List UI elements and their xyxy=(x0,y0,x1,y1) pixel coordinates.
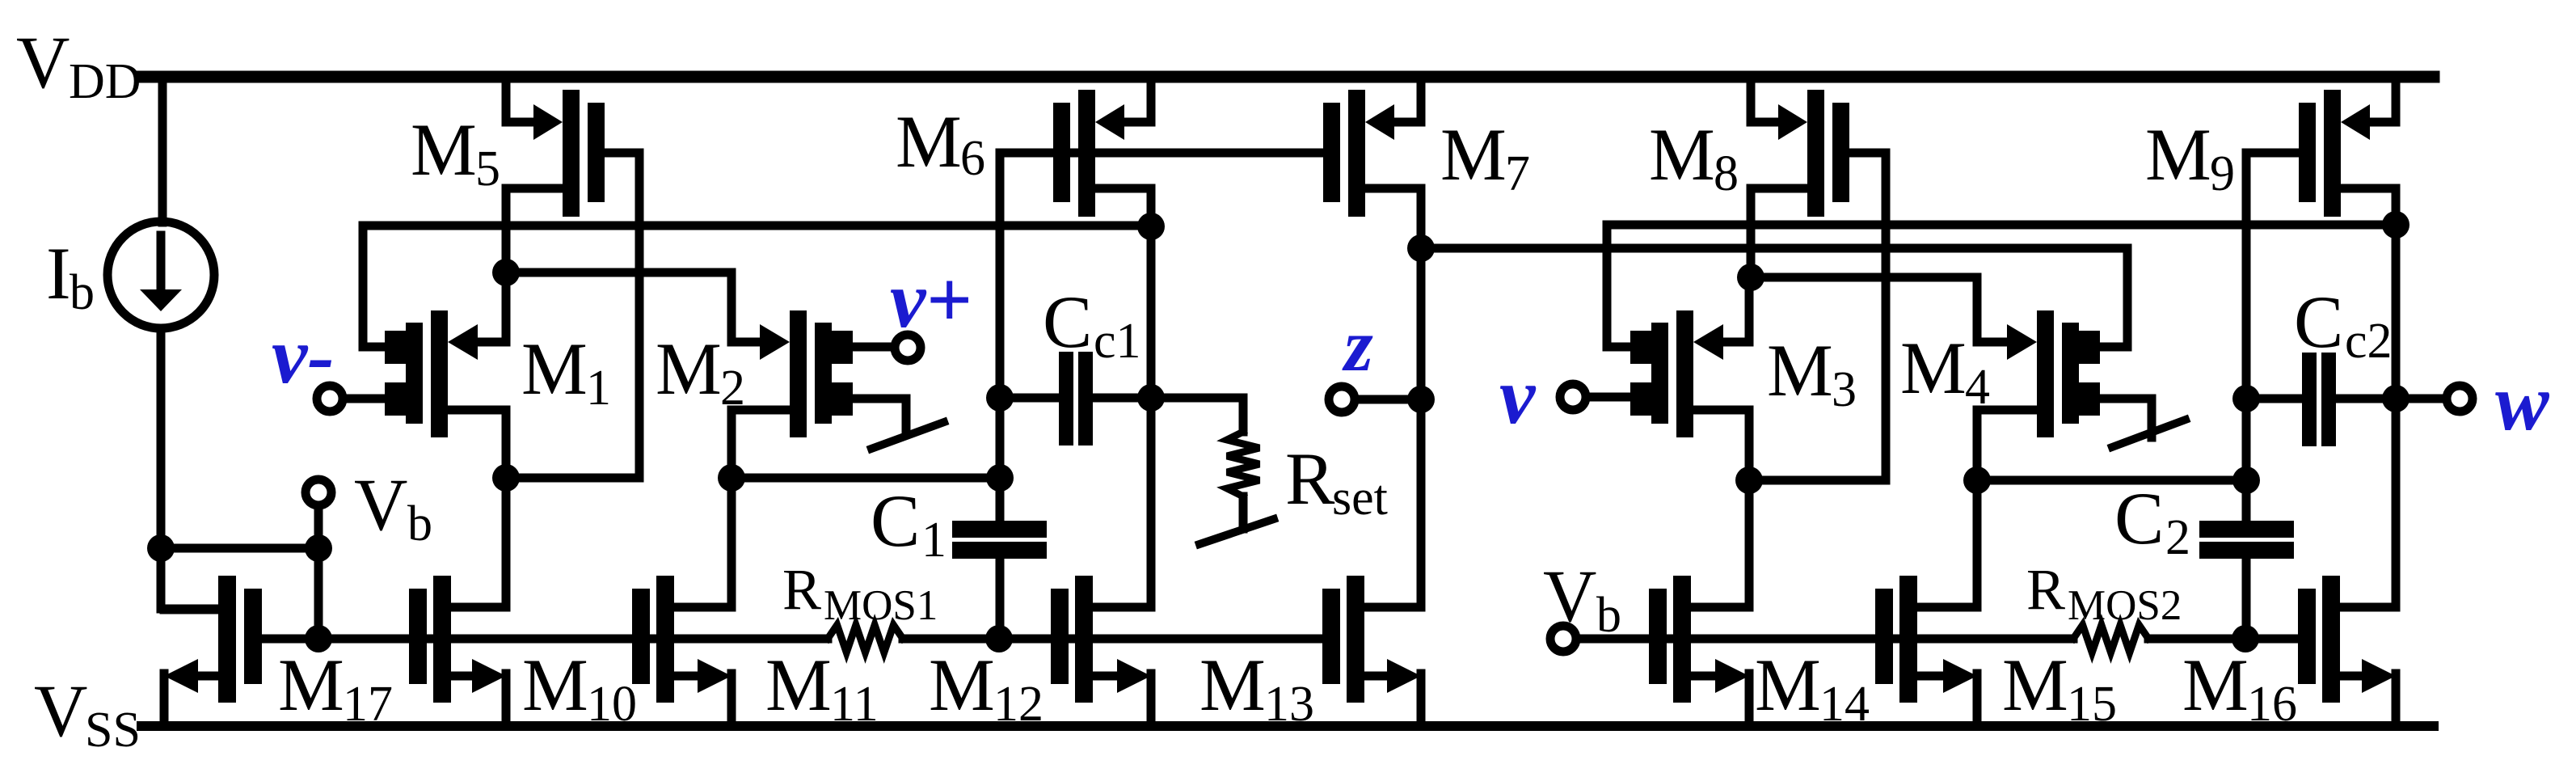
wire v- to M1 xyxy=(347,395,385,403)
label M12 xyxy=(929,644,1043,732)
svg-text:1: 1 xyxy=(586,361,611,416)
terminal v- xyxy=(317,386,343,412)
node M6 drain xyxy=(1137,213,1165,240)
wire z terminal xyxy=(1359,395,1421,404)
wire M2 drain down xyxy=(727,410,736,478)
node Vb on gate bus xyxy=(305,625,332,652)
node first stage out at C1 xyxy=(986,464,1014,492)
node Cc1 right xyxy=(1137,384,1165,412)
svg-text:M: M xyxy=(411,108,477,191)
wire M8 drain down to tail 2 xyxy=(1747,188,1756,277)
wire M2 drain to C1 node xyxy=(731,474,1000,483)
gate bus right segment 2 xyxy=(2148,635,2300,644)
node C1 on gate bus xyxy=(985,625,1013,652)
wire Ib down to M17 drain xyxy=(161,544,218,609)
wire Ib to Vb node xyxy=(161,544,318,553)
wire M3 source up xyxy=(1745,277,1754,342)
svg-text:C: C xyxy=(1043,281,1092,363)
wire M9 drain down (w) xyxy=(2392,188,2401,607)
svg-text:3: 3 xyxy=(1832,362,1857,417)
label RMOS2 xyxy=(2026,557,2182,629)
transistor M4 (input PMOS) xyxy=(1977,310,2100,437)
label C2 xyxy=(2114,477,2190,565)
svg-text:C: C xyxy=(2294,281,2343,363)
svg-text:2: 2 xyxy=(2165,510,2190,565)
svg-text:9: 9 xyxy=(2210,146,2235,201)
wire M1 source up xyxy=(502,272,511,342)
transistor M11 (NMOS) xyxy=(632,576,731,726)
label M9 xyxy=(2145,113,2235,201)
label M5 xyxy=(411,108,500,196)
bulk slash M2 xyxy=(871,422,944,449)
svg-text:13: 13 xyxy=(1264,677,1314,732)
label w xyxy=(2495,357,2550,447)
node C2 on gate bus xyxy=(2232,625,2259,652)
label M2 xyxy=(656,327,745,416)
svg-text:5: 5 xyxy=(475,141,500,196)
terminal v xyxy=(1560,384,1586,410)
resistor Rset xyxy=(1151,398,1259,529)
svg-text:8: 8 xyxy=(1714,146,1739,201)
svg-text:M: M xyxy=(1755,644,1821,726)
transistor M13 (NMOS) xyxy=(1322,576,1421,726)
label VDD xyxy=(16,21,141,109)
svg-text:I: I xyxy=(46,232,71,315)
svg-text:R: R xyxy=(782,557,821,622)
terminal v+ xyxy=(895,335,921,361)
wire M3 drain down xyxy=(1745,410,1754,480)
svg-text:14: 14 xyxy=(1819,677,1870,732)
transistor M7 (PMOS) xyxy=(1323,77,1421,217)
label C1 xyxy=(871,479,947,568)
wire M6 drain down xyxy=(1147,188,1156,607)
label Vb left xyxy=(354,463,432,551)
svg-text:16: 16 xyxy=(2247,677,2297,732)
label RMOS1 xyxy=(782,557,938,629)
node M1 drain xyxy=(492,464,520,492)
node w xyxy=(2382,385,2409,412)
wire M9 drain to M3 gate (line y278) xyxy=(1607,225,2396,347)
label M13 xyxy=(1199,644,1314,732)
node Vb-Ib wire junction xyxy=(305,534,332,562)
svg-text:M: M xyxy=(2002,644,2068,726)
label Rset xyxy=(1285,437,1388,526)
svg-text:M: M xyxy=(521,327,588,410)
VDD rail xyxy=(141,71,2434,83)
capacitor C2 xyxy=(2199,480,2294,639)
svg-text:6: 6 xyxy=(960,131,985,186)
transistor M8 (PMOS) xyxy=(1751,77,1886,217)
label VSS xyxy=(34,669,141,758)
svg-text:DD: DD xyxy=(69,54,141,109)
svg-text:v: v xyxy=(1499,351,1537,441)
svg-text:V: V xyxy=(354,463,407,546)
svg-text:M: M xyxy=(1767,329,1833,412)
transistor M15 (NMOS) xyxy=(1875,576,1977,726)
label M1 xyxy=(521,327,611,416)
node tail 2 xyxy=(1737,264,1764,291)
VSS rail xyxy=(141,721,2434,731)
gate bus left segment 2 xyxy=(903,635,1323,644)
svg-text:V: V xyxy=(34,669,87,752)
svg-text:MOS2: MOS2 xyxy=(2068,582,2182,629)
svg-text:b: b xyxy=(407,496,432,551)
wire M2 upper stub to v+ xyxy=(852,343,891,352)
svg-text:SS: SS xyxy=(85,703,141,758)
wire M9 gate down xyxy=(2246,153,2297,480)
wire M4 drain down xyxy=(1973,410,1982,480)
wire M2 drain down to M11 xyxy=(727,478,736,607)
svg-text:1: 1 xyxy=(921,513,947,568)
slash Rset xyxy=(1199,519,1274,544)
label z xyxy=(1342,304,1373,386)
label M16 xyxy=(2182,644,2297,732)
wire Vb down to gate bus xyxy=(314,505,323,639)
label M4 xyxy=(1900,327,1990,415)
gate bus right segment 1 xyxy=(1576,635,2073,644)
node M3 drain xyxy=(1735,467,1763,494)
svg-text:c2: c2 xyxy=(2345,314,2393,369)
svg-text:17: 17 xyxy=(343,677,393,732)
svg-text:M: M xyxy=(522,644,588,726)
svg-text:c1: c1 xyxy=(1094,314,1141,369)
wire M1 drain down to M10 xyxy=(502,478,511,607)
wire tail node 1 xyxy=(506,272,731,342)
label M17 xyxy=(278,644,393,732)
svg-text:M: M xyxy=(1649,113,1715,196)
wire tail node 2 xyxy=(1751,277,1977,342)
transistor M2 (input PMOS) xyxy=(731,310,853,437)
label M7 xyxy=(1440,113,1530,201)
svg-text:10: 10 xyxy=(587,677,637,732)
transistor M1 (input PMOS) xyxy=(385,310,506,437)
transistor M10 (NMOS) xyxy=(409,576,506,726)
svg-text:V: V xyxy=(16,21,70,103)
svg-text:7: 7 xyxy=(1505,146,1530,201)
node Cc2 column bottom xyxy=(2232,467,2260,494)
svg-text:M: M xyxy=(2182,644,2249,726)
transistor M12 (NMOS) xyxy=(1051,576,1151,726)
transistor M14 (NMOS) xyxy=(1649,576,1749,726)
label M10 xyxy=(522,644,637,732)
svg-text:M: M xyxy=(1900,327,1967,409)
wire v to M3 xyxy=(1590,393,1629,402)
svg-text:M: M xyxy=(1440,113,1507,196)
svg-text:15: 15 xyxy=(2067,677,2117,732)
label M3 xyxy=(1767,329,1857,417)
wire gate line drop to C node xyxy=(996,153,1005,478)
svg-text:v-: v- xyxy=(272,310,335,400)
wire M3 drain down to M14 xyxy=(1745,480,1754,607)
label M8 xyxy=(1649,113,1739,201)
node M4 drain xyxy=(1963,467,1991,494)
label Cc2 xyxy=(2294,281,2393,369)
svg-text:12: 12 xyxy=(993,677,1043,732)
svg-text:b: b xyxy=(70,265,95,320)
node M9 drain xyxy=(2382,211,2409,239)
node tail 1 xyxy=(492,259,520,286)
svg-text:w: w xyxy=(2495,357,2550,447)
svg-text:M: M xyxy=(765,644,832,726)
bulk slash M4 xyxy=(2112,420,2186,447)
node M2 drain xyxy=(718,464,745,492)
transistor M17 (NMOS) xyxy=(164,576,262,726)
label Ib xyxy=(46,232,95,320)
svg-text:C: C xyxy=(2114,477,2164,560)
svg-text:MOS1: MOS1 xyxy=(824,582,938,629)
wire w terminal xyxy=(2396,395,2443,403)
svg-text:set: set xyxy=(1332,471,1388,526)
terminal w xyxy=(2447,386,2473,412)
label v- xyxy=(272,310,335,400)
label M6 xyxy=(896,100,985,186)
label M15 xyxy=(2002,644,2117,732)
terminal z xyxy=(1329,386,1355,412)
label M14 xyxy=(1755,644,1870,732)
label v+ xyxy=(890,255,972,344)
wire z line to M4 gate xyxy=(1421,248,2127,347)
node z top xyxy=(1407,234,1435,262)
transistor M5 (PMOS) xyxy=(506,77,639,217)
resistor RMOS1 xyxy=(828,625,903,652)
node Cc1 left xyxy=(986,384,1014,412)
svg-text:M: M xyxy=(896,100,962,183)
node z terminal xyxy=(1407,386,1435,413)
svg-text:v+: v+ xyxy=(890,255,972,344)
svg-text:M: M xyxy=(1199,644,1266,726)
capacitor Cc1 xyxy=(1000,352,1151,446)
label v xyxy=(1499,351,1537,441)
gate bus left segment 1 xyxy=(262,635,828,644)
capacitor C1 xyxy=(952,478,1047,639)
wire M6-M7 gate line xyxy=(1000,149,1323,158)
svg-text:V: V xyxy=(1543,555,1596,637)
wire M4 drain to Cc2 column xyxy=(1977,476,2247,485)
transistor M9 (PMOS) xyxy=(2299,77,2396,217)
node Cc2 left xyxy=(2232,385,2260,412)
svg-text:C: C xyxy=(871,479,920,562)
current source Ib xyxy=(108,77,214,548)
wire M3 drain to M8 gate xyxy=(1749,476,1886,485)
node Ib-Vb junction xyxy=(147,534,175,562)
svg-text:R: R xyxy=(1285,437,1335,520)
terminal Vb left xyxy=(306,479,331,505)
capacitor Cc2 xyxy=(2246,353,2396,446)
wire M2 bulk stub xyxy=(852,399,906,431)
transistor M16 (NMOS) xyxy=(2298,576,2396,726)
transistor M3 (input PMOS) xyxy=(1630,310,1749,437)
svg-text:M: M xyxy=(2145,113,2211,196)
resistor RMOS2 xyxy=(2073,625,2148,652)
svg-text:M: M xyxy=(929,644,995,726)
svg-text:R: R xyxy=(2026,557,2065,622)
label Vb right xyxy=(1543,555,1621,643)
wire M7 drain down (z) xyxy=(1417,188,1426,607)
wire M1 drain down xyxy=(502,410,511,478)
svg-text:M: M xyxy=(278,644,344,726)
transistor M6 (PMOS) xyxy=(1053,77,1151,217)
wire M5 drain down to tail node xyxy=(502,188,511,272)
wire M4 bulk stub xyxy=(2097,399,2152,437)
wire M5 gate down to M1 drain node xyxy=(635,153,644,478)
wire M4 drain down to M15 xyxy=(1973,480,1982,607)
wire M8 gate down xyxy=(1882,153,1891,480)
svg-text:z: z xyxy=(1342,304,1373,386)
label Cc1 xyxy=(1043,281,1141,369)
label M11 xyxy=(765,644,879,732)
terminal Vb right xyxy=(1550,626,1576,652)
svg-text:M: M xyxy=(656,327,722,410)
svg-text:11: 11 xyxy=(830,677,879,732)
wire M6 drain to M1 gate (line y279) xyxy=(363,226,1151,347)
wire M1 drain to M5 gate xyxy=(506,474,639,483)
